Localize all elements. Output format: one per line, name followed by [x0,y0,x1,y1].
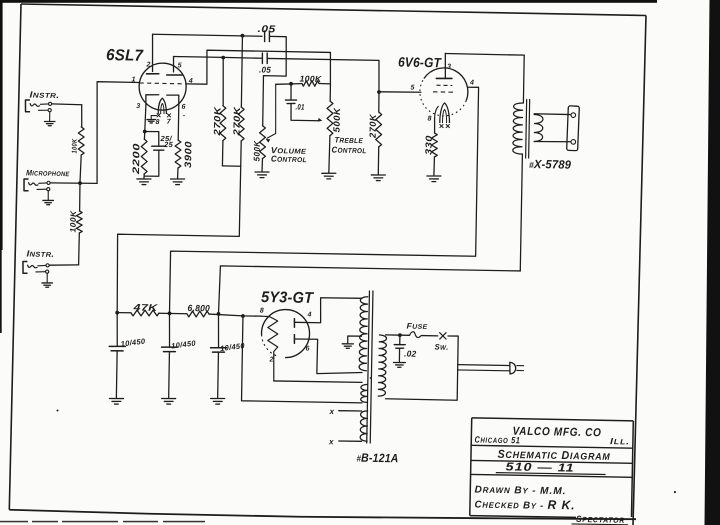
svg-text:100K: 100K [72,138,79,153]
svg-text:5Y3-GT: 5Y3-GT [261,289,315,307]
svg-text:5: 5 [410,84,414,91]
svg-text:270K: 270K [368,113,378,139]
svg-text:4: 4 [469,80,474,87]
svg-text:4: 4 [306,311,311,318]
svg-text:1: 1 [131,76,135,83]
svg-text:3900: 3900 [183,141,195,168]
svg-text:500K: 500K [331,106,341,132]
svg-text:330: 330 [423,135,433,155]
svg-text:.02: .02 [404,349,417,359]
svg-text:8: 8 [427,116,431,123]
svg-text:6: 6 [181,104,185,111]
svg-text:6,800: 6,800 [187,303,210,313]
svg-text:CHICAGO 51: CHICAGO 51 [474,434,520,445]
svg-text:2200: 2200 [131,143,143,176]
svg-text:500K: 500K [252,140,262,162]
svg-text:x: x [328,407,334,416]
svg-text:SPECTATOR: SPECTATOR [576,514,625,525]
svg-text:.05: .05 [259,64,271,74]
svg-text:100K: 100K [69,210,78,233]
svg-text:8: 8 [155,119,159,126]
svg-text:8: 8 [260,308,264,315]
svg-text:510 — 11: 510 — 11 [505,461,574,474]
svg-text:100K: 100K [299,73,322,83]
svg-text:.01: .01 [295,102,304,111]
svg-text:3: 3 [136,103,140,110]
svg-text:6SL7: 6SL7 [106,47,144,65]
svg-text:3: 3 [447,63,451,70]
svg-text:ILL.: ILL. [610,436,630,446]
svg-text:270K: 270K [212,105,223,137]
svg-text:6: 6 [305,346,309,353]
svg-text:2: 2 [268,357,273,364]
svg-text:47K: 47K [132,302,159,314]
svg-text:x: x [328,437,334,446]
svg-text:5: 5 [178,62,182,69]
svg-text:#B-121A: #B-121A [356,451,398,466]
svg-text:6V6-GT: 6V6-GT [398,55,443,71]
svg-text:.05: .05 [257,24,275,35]
svg-text:VALCO MFG. CO: VALCO MFG. CO [512,426,601,440]
svg-text:2: 2 [145,62,150,69]
svg-text:#X-5789: #X-5789 [529,157,571,172]
svg-text:270K: 270K [231,105,242,137]
svg-text:FUSE: FUSE [407,321,429,330]
svg-text:25: 25 [163,140,174,149]
svg-text:SW.: SW. [435,343,449,352]
